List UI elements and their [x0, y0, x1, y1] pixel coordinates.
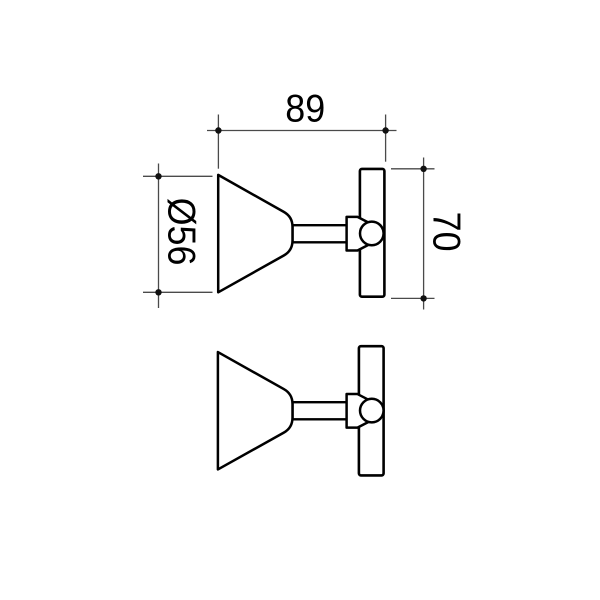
dim 70 dots [420, 166, 426, 172]
tick bottom [143, 291, 213, 293]
mount bracket bottom view [347, 394, 372, 428]
tick top [391, 168, 435, 170]
cone handle top view [218, 175, 292, 292]
cone handle bottom view [218, 352, 293, 469]
wall plate bottom view [359, 346, 384, 475]
tick bottom [391, 297, 435, 299]
mount bracket top view [347, 217, 372, 251]
wall plate top view [360, 169, 385, 297]
ball joint bottom view [360, 399, 384, 423]
stem bottom view [293, 402, 348, 419]
svg-text:Ø56: Ø56 [160, 198, 204, 266]
dim 70 lines [391, 158, 435, 310]
ball joint top view [360, 222, 384, 246]
stem top view [293, 225, 348, 242]
dim 89 line [207, 115, 397, 169]
svg-text:89: 89 [285, 86, 325, 130]
tick top [143, 175, 213, 177]
dim 89 dots [215, 127, 221, 133]
ext line right [385, 115, 387, 162]
svg-text:70: 70 [425, 212, 469, 252]
ext line left [217, 115, 219, 169]
dim O56 lines [143, 164, 213, 309]
dim O56 dots [155, 173, 161, 179]
